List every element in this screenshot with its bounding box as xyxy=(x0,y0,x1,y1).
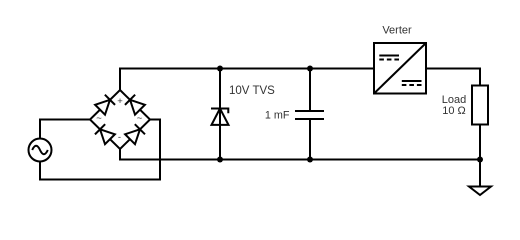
diode D1 top-left arm (anode at ~ left, cathode at +) xyxy=(95,95,115,115)
junction node: TVS top xyxy=(217,66,223,72)
junction node: load bottom / ground xyxy=(477,157,483,163)
load resistor R1 xyxy=(472,86,488,125)
bridge rectifier B1 diamond xyxy=(90,90,150,149)
svg-text:+: + xyxy=(117,96,123,107)
diode D3 bottom-left arm (anode at -, cathode at ~ left) xyxy=(95,124,115,144)
DC-DC converter U1 box xyxy=(374,43,426,94)
converter diagonal xyxy=(374,43,426,94)
capacitor C1 plates xyxy=(295,111,324,119)
ground symbol xyxy=(469,187,491,196)
diode D2 top-right arm (anode at ~ right, cathode at +) xyxy=(125,95,145,115)
converter input DC symbol xyxy=(379,56,399,60)
wire: load bottom to ground xyxy=(479,125,481,187)
wire: bridge bottom vertex to bottom rail xyxy=(120,149,480,160)
svg-text:Verter: Verter xyxy=(382,25,412,37)
wire: TVS branch from top rail to bottom rail xyxy=(219,69,221,160)
wire: AC source top to bridge left vertex xyxy=(40,120,90,140)
junction node: TVS bottom xyxy=(217,157,223,163)
TVS diode Z1 (zener, cathode up) xyxy=(211,109,229,125)
svg-text:10V TVS: 10V TVS xyxy=(229,85,275,97)
wire: AC source bottom return to bridge right vertex (crosses bottom rail) xyxy=(40,120,160,180)
AC sine symbol xyxy=(32,146,48,154)
junction node: capacitor top xyxy=(307,66,313,72)
wire: bridge top vertex to top positive rail xyxy=(120,69,374,91)
converter output DC symbol xyxy=(402,81,422,85)
wire: converter output to load xyxy=(426,69,480,86)
diode D4 bottom-right arm (anode at -, cathode at ~ right) xyxy=(125,124,145,144)
svg-text:1 mF: 1 mF xyxy=(265,110,290,122)
AC source V1 xyxy=(29,139,52,162)
wire: capacitor branch bottom xyxy=(309,119,311,160)
svg-text:10 Ω: 10 Ω xyxy=(442,105,466,117)
junction node: capacitor bottom xyxy=(307,157,313,163)
svg-text:~: ~ xyxy=(137,113,143,124)
wire: capacitor branch top xyxy=(309,69,311,112)
svg-text:~: ~ xyxy=(96,113,102,124)
svg-text:-: - xyxy=(118,132,121,143)
